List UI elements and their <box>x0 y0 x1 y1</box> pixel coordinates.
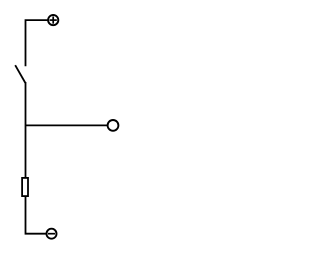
output terminal <box>108 120 119 131</box>
wire from resistor to - terminal <box>26 196 47 234</box>
switch S1 blade <box>15 65 25 83</box>
wire from + terminal to switch top contact <box>26 20 49 66</box>
node wire to output <box>26 124 108 126</box>
wire from switch bottom to resistor <box>25 82 27 179</box>
positive supply terminal <box>48 15 58 25</box>
resistor R1 <box>22 178 28 196</box>
negative supply terminal <box>47 229 57 239</box>
